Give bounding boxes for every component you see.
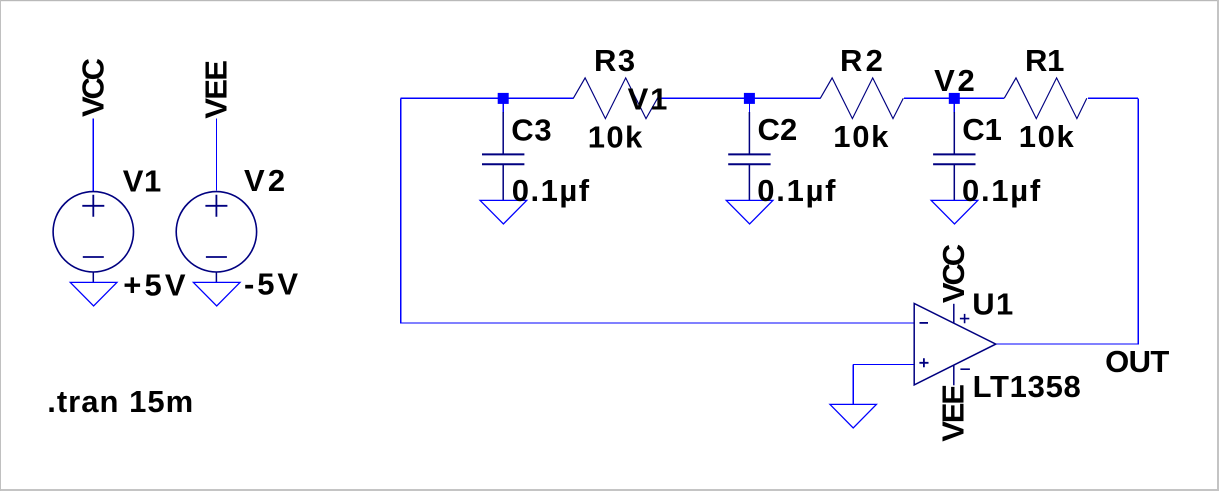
ground flag under V1	[70, 282, 117, 306]
svg-text:R1: R1	[1025, 43, 1064, 78]
svg-text:C2: C2	[758, 112, 798, 147]
U1 VCC plus marker	[960, 314, 969, 323]
svg-text:U1: U1	[972, 286, 1013, 321]
wire net V2 segment R2 to R1	[904, 97, 1004, 99]
svg-text:V1: V1	[628, 81, 668, 116]
U1 triangle body	[914, 303, 996, 385]
wire C1 stub	[953, 98, 955, 113]
svg-text:VEE: VEE	[936, 384, 971, 442]
svg-text:R3: R3	[594, 43, 635, 78]
svg-text:VEE: VEE	[199, 60, 234, 119]
svg-text:VCC: VCC	[76, 58, 111, 117]
C2 top lead	[748, 112, 750, 154]
ground flag under C3	[480, 200, 527, 224]
svg-text:C1: C1	[962, 112, 1002, 147]
node junction square at C2 (net V1)	[744, 93, 755, 104]
ground flag under C1	[931, 200, 978, 224]
svg-text:R2: R2	[840, 43, 883, 78]
resistor R1 zigzag	[1004, 78, 1087, 119]
wire right vertical OUT to top	[1137, 98, 1139, 344]
wire non-inverting to ground	[852, 364, 854, 404]
svg-text:+5V: +5V	[123, 267, 186, 302]
node junction square at C1 (net V2)	[949, 93, 960, 104]
ground flag under V2	[193, 282, 240, 306]
V2 circle body	[176, 192, 256, 272]
V1 circle body	[53, 192, 133, 272]
wire C2 stub	[748, 98, 750, 113]
svg-text:V1: V1	[123, 163, 162, 198]
svg-text:0.1µf: 0.1µf	[757, 173, 836, 208]
C3 top plate	[482, 153, 524, 155]
resistor R3 zigzag	[573, 78, 657, 119]
U1 inverting input minus marker	[920, 322, 929, 324]
svg-text:V2: V2	[934, 63, 975, 98]
wire net V1 segment R3 to R2	[657, 97, 820, 99]
svg-text:C3: C3	[511, 112, 551, 147]
C2 top plate	[728, 153, 770, 155]
resistor R2 zigzag	[820, 78, 903, 119]
U1 VCC pin stub	[953, 304, 955, 323]
V1 minus sign	[83, 256, 104, 258]
ground flag under C2	[726, 200, 773, 224]
wire op-amp output to OUT corner	[996, 343, 1139, 345]
svg-text:OUT: OUT	[1105, 344, 1169, 379]
V2 plus sign	[205, 195, 227, 217]
C1 top plate	[933, 153, 975, 155]
svg-text:0.1µf: 0.1µf	[512, 173, 590, 208]
wire left feedback vertical	[400, 98, 402, 323]
svg-text:0.1µf: 0.1µf	[962, 173, 1041, 208]
U1 VEE pin stub	[953, 365, 955, 385]
C2 bottom lead	[748, 165, 750, 200]
C1 bottom lead	[953, 165, 955, 200]
C3 top lead	[502, 112, 504, 154]
svg-text:.tran 15m: .tran 15m	[47, 384, 193, 419]
V1 plus sign	[82, 195, 104, 217]
svg-text:10k: 10k	[833, 119, 889, 154]
svg-text:-5V: -5V	[244, 267, 298, 302]
svg-text:V2: V2	[244, 163, 285, 198]
wire C3 stub	[502, 98, 504, 113]
wire feedback horizontal to inverting input	[400, 322, 914, 324]
wire R1 to right corner	[1088, 97, 1138, 99]
C1 top lead	[953, 112, 955, 154]
C1 bottom plate	[933, 163, 975, 165]
svg-text:LT1358: LT1358	[973, 369, 1081, 404]
svg-text:10k: 10k	[1019, 119, 1075, 154]
C3 bottom plate	[482, 163, 524, 165]
C2 bottom plate	[728, 163, 770, 165]
svg-text:10k: 10k	[588, 119, 643, 154]
svg-text:VCC: VCC	[936, 244, 971, 303]
U1 non-inverting input plus marker	[919, 358, 928, 367]
wire VEE flag to V2 source	[215, 119, 217, 191]
V1 bottom lead	[92, 272, 94, 282]
node junction square at C3	[498, 93, 509, 104]
ground flag at non-inverting input	[830, 404, 876, 428]
wire VCC flag to V1 source	[92, 119, 94, 192]
U1 VEE minus marker	[960, 368, 970, 370]
C3 bottom lead	[502, 165, 504, 200]
V2 bottom lead	[215, 272, 217, 282]
V2 minus sign	[206, 256, 227, 258]
wire top net segment left of R3	[401, 97, 574, 99]
wire non-inverting input	[853, 363, 914, 365]
